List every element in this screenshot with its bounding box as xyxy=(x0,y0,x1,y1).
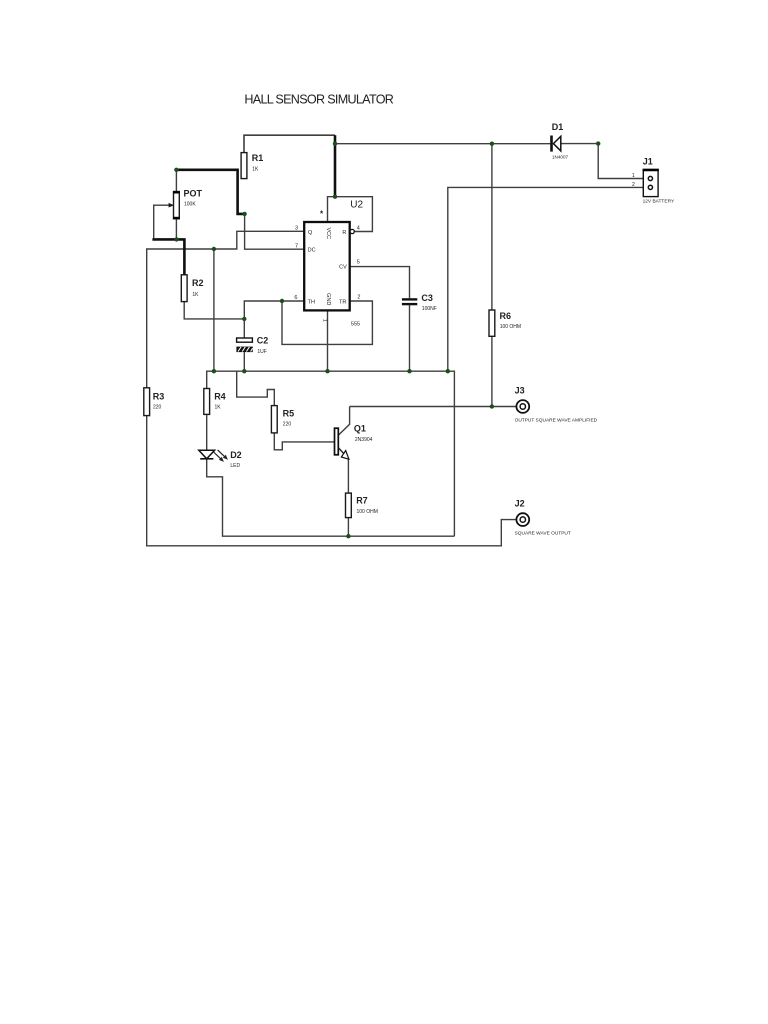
svg-text:VCC: VCC xyxy=(325,227,331,239)
wire R1 to DC pin7 xyxy=(245,214,305,249)
svg-text:GND: GND xyxy=(325,293,331,305)
svg-text:Q: Q xyxy=(308,230,313,236)
U2 reset bubble xyxy=(350,229,354,233)
wire R2 bottom xyxy=(184,302,244,319)
resistor R7 xyxy=(346,493,352,517)
capacitor C3 xyxy=(402,298,417,300)
wire POT top thick xyxy=(176,170,244,214)
wire C3 bottom lead xyxy=(409,305,411,371)
svg-text:1: 1 xyxy=(321,319,327,322)
svg-text:C3: C3 xyxy=(421,293,433,303)
resistor R5 xyxy=(271,406,277,433)
transistor Q1 2N3904 xyxy=(335,428,339,455)
svg-text:1N4007: 1N4007 xyxy=(552,155,569,160)
wire TH-TR loop xyxy=(282,301,372,344)
svg-text:12V BATTERY: 12V BATTERY xyxy=(643,199,675,205)
svg-text:R4: R4 xyxy=(214,392,226,402)
capacitor C2 polarized xyxy=(237,338,253,342)
svg-text:D1: D1 xyxy=(552,122,564,132)
wire R6 top lead xyxy=(491,144,493,310)
wire POT top lead xyxy=(175,170,177,192)
node R1 bottom / POT xyxy=(242,212,246,216)
svg-text:100K: 100K xyxy=(184,201,196,207)
svg-text:POT: POT xyxy=(184,188,203,198)
svg-text:6: 6 xyxy=(294,295,297,301)
svg-text:2N3904: 2N3904 xyxy=(355,437,373,443)
svg-text:J3: J3 xyxy=(515,385,525,395)
wire R5 top jog xyxy=(237,371,275,405)
potentiometer POT xyxy=(174,192,180,219)
wiper arrowhead xyxy=(169,203,174,208)
wire J1 pin2 long xyxy=(448,187,649,371)
wire POT wiper xyxy=(154,205,171,238)
resistor R3 xyxy=(144,388,150,416)
node D1 J1 corner xyxy=(596,141,600,145)
node GND rail xyxy=(325,369,329,373)
node VCC rail branch xyxy=(333,142,337,146)
svg-text:OUTPUT SQUARE WAVE AMPLIFIED: OUTPUT SQUARE WAVE AMPLIFIED xyxy=(515,417,598,423)
connector J2 xyxy=(516,513,529,526)
wire TH pin6 xyxy=(244,301,304,319)
node C2 rail xyxy=(242,369,246,373)
svg-text:J1: J1 xyxy=(643,157,653,167)
svg-text:4: 4 xyxy=(357,226,360,232)
svg-text:R6: R6 xyxy=(500,311,512,321)
wire D2 cathode route xyxy=(207,459,455,536)
wire collector to J3 xyxy=(350,406,516,408)
svg-text:DC: DC xyxy=(308,247,316,253)
node VCC reset loop xyxy=(333,195,337,199)
wire C2 top lead xyxy=(243,319,245,338)
LED D2 xyxy=(199,450,215,459)
node R4 branch rail xyxy=(212,369,216,373)
svg-text:R2: R2 xyxy=(192,278,204,288)
svg-text:1K: 1K xyxy=(192,292,199,298)
svg-text:220: 220 xyxy=(283,422,292,428)
resistor R2 xyxy=(181,275,187,302)
svg-text:555: 555 xyxy=(351,322,360,328)
svg-text:R3: R3 xyxy=(153,392,165,402)
svg-text:2: 2 xyxy=(357,295,360,301)
svg-text:D2: D2 xyxy=(230,450,242,460)
svg-text:100NF: 100NF xyxy=(422,306,437,312)
svg-text:1K: 1K xyxy=(215,405,222,411)
svg-text:*: * xyxy=(320,210,324,219)
wire D1 rail xyxy=(335,143,550,145)
svg-text:R5: R5 xyxy=(283,409,295,419)
wire Q1 emitter lead xyxy=(347,459,349,493)
svg-text:R7: R7 xyxy=(356,496,368,506)
svg-text:SQUARE WAVE OUTPUT: SQUARE WAVE OUTPUT xyxy=(515,531,571,537)
wire POT bottom thick to R2 xyxy=(152,239,184,274)
wire Q output net xyxy=(147,231,305,387)
svg-text:1K: 1K xyxy=(252,166,259,172)
junction dots xyxy=(174,141,600,538)
wire POT bottom lead xyxy=(175,219,177,240)
wire CV to C3 xyxy=(350,267,410,299)
wire GND stub xyxy=(327,310,329,371)
resistor R6 xyxy=(489,310,495,336)
diode D1 1N4007 xyxy=(550,136,553,152)
svg-text:R: R xyxy=(342,230,346,236)
wire reset loop to VCC stub xyxy=(328,197,373,232)
svg-text:100 OHM: 100 OHM xyxy=(500,324,521,330)
svg-text:J2: J2 xyxy=(515,499,525,509)
svg-text:7: 7 xyxy=(295,243,298,249)
node POT top xyxy=(174,168,178,172)
resistor R1 xyxy=(241,153,247,179)
node TH TR loop xyxy=(280,299,284,303)
svg-text:1UF: 1UF xyxy=(257,349,266,355)
node R6 top xyxy=(490,142,494,146)
svg-text:220: 220 xyxy=(153,405,162,411)
svg-text:3: 3 xyxy=(295,226,298,232)
svg-text:R1: R1 xyxy=(252,153,264,163)
connector J1 12V battery xyxy=(643,170,658,197)
svg-text:U2: U2 xyxy=(350,200,363,211)
wire R4 branch xyxy=(213,249,215,371)
wire R6 bottom lead xyxy=(491,336,493,406)
svg-text:LED: LED xyxy=(230,463,240,469)
wire Q1 collector xyxy=(338,407,349,436)
wire R7 bottom lead xyxy=(347,518,349,537)
node Q net R4 branch xyxy=(212,247,216,251)
svg-text:C2: C2 xyxy=(257,335,269,345)
wire bottom rail to J2 xyxy=(147,416,517,546)
svg-text:Q1: Q1 xyxy=(354,424,366,434)
svg-text:2: 2 xyxy=(632,182,635,188)
svg-text:5: 5 xyxy=(357,260,360,266)
node C3 rail xyxy=(407,369,411,373)
svg-text:TH: TH xyxy=(308,299,315,305)
wire mid rail xyxy=(207,371,455,536)
svg-text:TR: TR xyxy=(339,299,346,305)
node R2 TH C2 xyxy=(242,317,246,321)
svg-text:100 OHM: 100 OHM xyxy=(357,509,378,515)
wire VCC drop thick xyxy=(334,135,337,197)
node POT bottom xyxy=(174,237,178,241)
wire top VCC rail xyxy=(244,135,335,152)
node J1 wire rail xyxy=(446,369,450,373)
svg-text:HALL SENSOR SIMULATOR: HALL SENSOR SIMULATOR xyxy=(244,92,393,106)
svg-text:CV: CV xyxy=(339,265,347,271)
resistor R4 xyxy=(204,389,210,415)
wire R4 bottom lead xyxy=(206,414,208,450)
connector J3 xyxy=(516,400,529,413)
node R7 bottom xyxy=(346,534,350,538)
wire R5 bottom to Q1 base xyxy=(274,433,334,450)
node R6 bottom J3 xyxy=(490,404,494,408)
svg-text:1: 1 xyxy=(632,173,635,179)
wire C2 bottom lead xyxy=(243,352,245,371)
op-amp U2 555 timer body xyxy=(304,222,350,310)
wire D1 to J1 pin1 xyxy=(561,144,649,179)
